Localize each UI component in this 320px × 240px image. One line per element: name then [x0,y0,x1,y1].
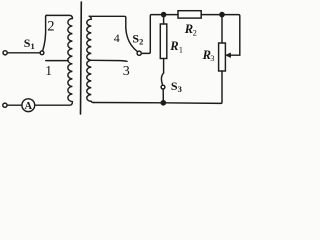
wire (R3 bottom to rail) [221,71,222,103]
node (junction R1 / top rail) [162,13,166,17]
wire (R2 to node) [201,14,222,16]
wire tap 1 [46,60,68,62]
wire (secondary top to S2) [89,16,126,28]
svg-text:3: 3 [123,64,130,79]
wire [7,52,40,54]
node (junction R3 / top rail) [220,13,224,17]
switch S2 blade [126,28,138,52]
switch S1 hinge contact [40,51,44,55]
wire (node down to R3) [221,15,223,43]
terminal (upper left input) [3,51,7,55]
wire tap 3 [91,60,127,61]
svg-text:2: 2 [193,27,197,37]
wire [7,104,22,106]
resistor R2 [178,11,201,18]
resistor R1 [160,24,167,59]
rheostat R3 body [219,43,226,71]
wire (top rail to R2) [164,14,178,16]
svg-text:2: 2 [47,19,54,35]
svg-text:R: R [169,39,178,53]
svg-text:1: 1 [179,45,183,55]
switch S1 blade + terminal 2 lead [43,15,47,51]
wire (R1 from top rail) [163,15,165,24]
svg-text:A: A [25,101,33,112]
switch S2 contact [137,51,141,55]
node (junction on bottom rail) [161,101,165,105]
wire (R1 to S3) [161,59,163,86]
wire (primary top, to coil) [47,15,73,18]
wire (secondary bottom rail) [93,102,221,105]
wire (top rail to right corner, down to wiper) [222,15,240,56]
svg-text:1: 1 [45,63,52,78]
transformer primary winding (terminals 1,2) [68,19,73,102]
ammeter A [22,99,35,112]
wire (S2 to top rail riser) [141,15,163,54]
terminal (lower left input) [3,103,7,107]
transformer core [80,2,83,114]
transformer secondary winding (terminals 3,4) [87,16,94,102]
rheostat R3 wiper arrow [226,53,231,57]
wire (primary bottom, coil to ammeter) [35,102,73,105]
svg-text:3: 3 [210,53,214,63]
svg-text:4: 4 [114,31,120,45]
wire (S3 to bottom rail) [162,89,164,103]
switch S3 contact [161,85,165,89]
